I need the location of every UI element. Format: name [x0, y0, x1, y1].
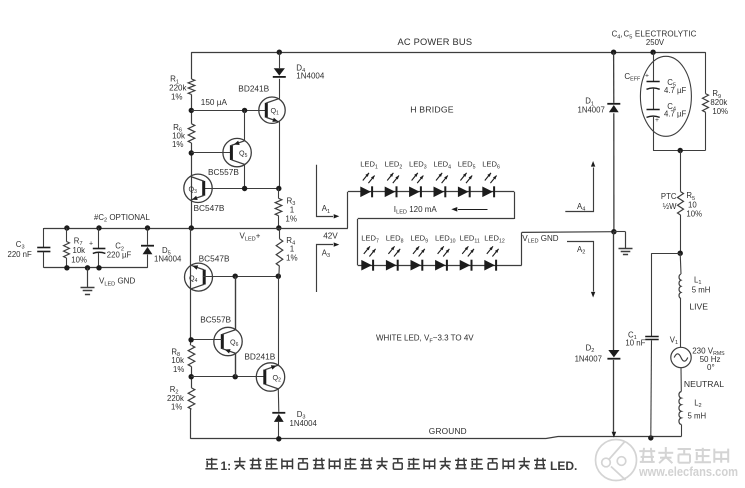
node D3/rail: [276, 436, 281, 441]
label CEFF: [624, 72, 641, 83]
LED12: [484, 246, 498, 270]
source V1 230Vrms 50Hz: [671, 347, 691, 367]
svg-text:1N4004: 1N4004: [296, 72, 325, 81]
label D5 1N4004: [154, 246, 182, 264]
label 230 VRMS 50 Hz 0deg: [692, 346, 725, 357]
label ILED 120 mA: [394, 205, 438, 216]
wire ground rail: [191, 409, 682, 439]
svg-text:ILED 120 mA: ILED 120 mA: [394, 205, 438, 216]
wire Q2 emitter vertical: [278, 276, 280, 365]
inductor L2 5mH: [679, 392, 682, 437]
label R9 820k 10%: [710, 89, 728, 116]
wire Q1 base / 150uA: [191, 110, 265, 112]
node R4/Q2 emitter: [276, 274, 281, 279]
label PTC 1/2W: [661, 192, 677, 211]
wire Q1 emitter down: [279, 122, 281, 188]
node connector/PTC: [678, 148, 683, 153]
label BD241B (Q1): [238, 84, 269, 94]
wire CEFF bottom connector: [653, 150, 705, 152]
node VLED GND rail / D column: [611, 229, 616, 234]
wire Q4 base row: [203, 276, 278, 278]
label WHITE LED note: [376, 334, 474, 345]
label V1: [670, 335, 678, 346]
capacitor C4 4.7uF: [647, 110, 660, 125]
wire bus below R8: [191, 367, 193, 388]
node stub/C2: [96, 265, 101, 270]
label VLED GND (left): [99, 277, 135, 288]
wire VLED+ rail: [44, 228, 348, 230]
label AC POWER BUS: [398, 37, 473, 47]
wire Q6 collector vertical: [235, 353, 237, 376]
svg-text:Q3: Q3: [189, 185, 198, 196]
annotation arrow A2: [567, 242, 595, 298]
wire D1 column upper: [613, 52, 615, 103]
transistor Q4 BC547B: [185, 263, 213, 291]
svg-text:½W: ½W: [663, 202, 678, 211]
label BC557B (Q6): [200, 314, 231, 324]
svg-text:1N4004: 1N4004: [154, 255, 182, 264]
label R3 1 1%: [285, 196, 297, 223]
svg-text:4.7 µF: 4.7 µF: [664, 110, 686, 119]
wire rail to right ground: [614, 231, 626, 233]
label R1 220k 1%: [169, 75, 187, 102]
svg-text:10: 10: [688, 200, 697, 209]
wire C5-C4: [653, 89, 655, 110]
label LED3: [409, 160, 427, 171]
node Q1 base wire: [189, 108, 194, 113]
svg-text:LED3: LED3: [409, 160, 427, 171]
wire LED return: [358, 219, 515, 266]
annotation arrow A4: [565, 161, 595, 213]
LED11: [460, 246, 474, 270]
watermark url www.elecfans.com: [638, 465, 738, 479]
resistor R2 220k 1%: [188, 388, 195, 409]
watermark text dianzifashaoyou: [639, 447, 728, 463]
node bus/C5: [650, 50, 655, 55]
diode D2 1N4007: [607, 350, 620, 360]
wire Q6 emitter vertical: [235, 276, 237, 330]
svg-text:1%: 1%: [171, 92, 183, 101]
svg-text:5 mH: 5 mH: [692, 285, 711, 294]
wire Q2 base row: [191, 376, 264, 378]
svg-text:+: +: [89, 241, 93, 248]
svg-text:PTC: PTC: [661, 192, 677, 201]
wire Q3 base row: [204, 188, 279, 190]
svg-text:BD241B: BD241B: [244, 351, 275, 361]
svg-text:220k: 220k: [167, 394, 184, 403]
node Q6 emitter tap: [233, 274, 238, 279]
node bus/D4: [277, 50, 282, 55]
label VLED+: [240, 232, 261, 243]
label L2 5 mH: [688, 398, 707, 420]
svg-text:150 µA: 150 µA: [201, 98, 228, 107]
svg-text:250V: 250V: [646, 38, 665, 47]
label C1 10 nF: [625, 330, 645, 347]
label D1 1N4007: [578, 97, 605, 115]
label #C2 OPTIONAL: [94, 213, 150, 224]
svg-text:A2: A2: [577, 245, 585, 256]
diode D1 1N4007: [607, 103, 620, 112]
label R6 10k 1%: [172, 123, 186, 149]
svg-text:A3: A3: [322, 248, 330, 259]
capacitor C5 4.7uF: [645, 52, 660, 89]
svg-text:Q1: Q1: [271, 106, 280, 117]
resistor R9 820k 10%: [703, 94, 709, 113]
svg-text:CEFF: CEFF: [624, 72, 641, 83]
ellipse CEFF: [640, 56, 691, 136]
wire V1 to L2: [680, 368, 682, 392]
wire LED row1: [348, 192, 515, 229]
label R5 10 10%: [686, 191, 702, 218]
label C3 220 nF: [8, 240, 33, 259]
svg-text:V1: V1: [670, 335, 678, 346]
LED9: [411, 246, 425, 270]
node Q5C/Q3B: [242, 186, 247, 191]
svg-text:4.7 µF: 4.7 µF: [664, 86, 686, 95]
label 150 uA: [201, 98, 228, 107]
capacitor C3 220nF: [37, 228, 50, 268]
svg-text:1%: 1%: [286, 253, 298, 262]
node rail/D5: [145, 225, 150, 230]
wire Q5 collector vertical: [244, 164, 246, 188]
label L1 5 mH: [692, 275, 711, 294]
label + (C2 polarity): [89, 241, 93, 248]
ground (left): [81, 268, 95, 295]
resistor R3: [275, 189, 282, 229]
label LED4: [433, 160, 451, 171]
label LED11: [460, 234, 480, 245]
label C5 4.7 uF: [664, 78, 686, 95]
label BC547B (Q4): [199, 254, 230, 264]
wire Q5 base: [191, 152, 230, 154]
svg-text:220 nF: 220 nF: [8, 250, 33, 259]
svg-text:Q2: Q2: [273, 373, 282, 384]
LED10: [435, 246, 449, 270]
node Q6C/Q2B: [233, 374, 238, 379]
LED3: [409, 173, 423, 197]
node rail/bus: [189, 225, 194, 230]
label LED5: [458, 160, 476, 171]
svg-text:1%: 1%: [171, 403, 182, 412]
capacitor C2 220uF electrolytic: [93, 228, 106, 268]
diode D4 1N4004: [273, 52, 286, 78]
label D3 1N4004: [290, 410, 318, 428]
svg-text:1:: 1:: [221, 459, 232, 473]
capacitor C1 10nF: [645, 337, 659, 438]
transistor Q3 BC547B: [184, 174, 212, 202]
node bus/Q6 base: [188, 337, 193, 342]
svg-text:LED2: LED2: [385, 160, 403, 171]
LED5: [458, 173, 472, 197]
svg-text:820k: 820k: [710, 98, 727, 107]
node Q5 base wire: [189, 150, 194, 155]
label LED8: [386, 234, 404, 245]
svg-text:LIVE: LIVE: [689, 302, 708, 312]
wire R9 column: [705, 52, 707, 150]
LED6: [482, 173, 496, 197]
label R8 10k 1%: [171, 347, 184, 374]
label LED12: [484, 234, 505, 245]
wire LED row2: [358, 232, 614, 266]
resistor R6: [188, 124, 195, 143]
node PTC bottom / branches: [678, 251, 683, 256]
svg-text:LED4: LED4: [433, 160, 451, 171]
svg-text:LED11: LED11: [460, 234, 480, 245]
label BD241B (Q2): [244, 351, 275, 361]
resistor R5 PTC: [678, 151, 684, 254]
svg-text:10%: 10%: [686, 209, 702, 218]
wire Q5 emitter vertical: [244, 110, 246, 140]
ground (right): [619, 232, 633, 255]
svg-text:BC547B: BC547B: [194, 203, 225, 213]
node stub/ground: [85, 265, 90, 270]
label LED9: [410, 234, 428, 245]
svg-text:BC557B: BC557B: [200, 314, 231, 324]
svg-text:LED1: LED1: [360, 160, 378, 171]
label BC547B (Q3): [194, 203, 225, 213]
label NEUTRAL: [684, 379, 724, 389]
svg-text:LED12: LED12: [484, 234, 505, 245]
annotation arrow A3: [317, 242, 340, 292]
svg-text:10 nF: 10 nF: [625, 338, 645, 347]
wire C1 branch: [652, 253, 681, 336]
LED8: [386, 246, 400, 270]
svg-text:VLED GND: VLED GND: [522, 234, 559, 245]
resistor R8 10k 1%: [188, 345, 195, 366]
label LIVE: [689, 302, 708, 312]
node Q1E/R3: [276, 186, 281, 191]
svg-text:10k: 10k: [171, 356, 184, 365]
svg-text:#C2 OPTIONAL: #C2 OPTIONAL: [94, 213, 150, 224]
label LED2: [385, 160, 403, 171]
svg-text:LED9: LED9: [410, 234, 428, 245]
svg-text:AC POWER BUS: AC POWER BUS: [398, 37, 473, 47]
label LED7: [361, 234, 379, 245]
svg-text:D2: D2: [586, 343, 595, 354]
resistor R4: [276, 228, 283, 276]
svg-text:H BRIDGE: H BRIDGE: [410, 104, 454, 114]
wire D2 column: [613, 232, 615, 350]
wire D1 to VLED GND rail: [613, 113, 615, 232]
label GROUND: [429, 426, 467, 436]
svg-text:10k: 10k: [73, 246, 86, 255]
watermark logo circle: [596, 440, 637, 481]
label R2 220k 1%: [167, 385, 184, 412]
svg-text:LED6: LED6: [482, 160, 500, 171]
svg-text:42V: 42V: [323, 231, 338, 240]
transistor Q2 BD241B: [256, 363, 284, 391]
svg-text:1N4007: 1N4007: [578, 106, 605, 115]
svg-text:1: 1: [290, 205, 295, 214]
svg-text:+: +: [655, 117, 659, 124]
node bus/Q2 base: [189, 374, 194, 379]
transistor Q5 BC557B: [223, 138, 251, 166]
svg-text:Q5: Q5: [239, 149, 248, 160]
node R3/rail: [276, 225, 281, 230]
svg-text:WHITE LED, VF~3.3 TO 4V: WHITE LED, VF~3.3 TO 4V: [376, 334, 474, 345]
wire Q6 base: [191, 339, 222, 341]
label C4 4.7 uF: [664, 102, 686, 119]
svg-text:Q6: Q6: [230, 338, 239, 349]
caption figure 1 (Chinese): [205, 457, 577, 473]
node bus/D1: [611, 50, 616, 55]
svg-text:L2: L2: [694, 398, 701, 409]
svg-text:BD241B: BD241B: [238, 84, 269, 94]
svg-text:1%: 1%: [172, 140, 184, 149]
wire left bus upper: [191, 52, 193, 228]
label BC557B (Q5): [208, 167, 239, 177]
wire VLED GND stub rail: [44, 267, 148, 269]
label D4 1N4004: [296, 63, 325, 80]
wire D2 to ground rail with arrow: [612, 360, 617, 438]
resistor R7 10k 10%: [64, 228, 70, 268]
transistor Q6 BC557B: [214, 327, 242, 355]
label H BRIDGE: [410, 104, 454, 114]
label LED1: [360, 160, 378, 171]
node rail/C2: [96, 225, 101, 230]
wire AC power bus: [191, 52, 705, 54]
svg-text:BC547B: BC547B: [199, 254, 230, 264]
svg-text:1N4004: 1N4004: [290, 419, 318, 428]
label C4 C5 ELECTROLYTIC 250V: [612, 30, 697, 47]
annotation arrow A1: [317, 165, 340, 219]
node Q5 emitter tap: [242, 108, 247, 113]
svg-text:220 µF: 220 µF: [107, 250, 132, 259]
svg-text:+: +: [645, 73, 649, 80]
label LED6: [482, 160, 500, 171]
diode D3 1N4004: [272, 412, 285, 439]
svg-text:10%: 10%: [712, 107, 728, 116]
wire Q2 collector: [277, 389, 280, 412]
svg-text:NEUTRAL: NEUTRAL: [684, 379, 724, 389]
label R4 1 1%: [286, 236, 298, 262]
svg-text:C4,: C4,: [612, 30, 623, 41]
label R7 10k 10%: [71, 236, 87, 264]
svg-text:5 mH: 5 mH: [688, 411, 707, 420]
diode D5 1N4004: [141, 228, 154, 268]
svg-text:www.elecfans.com: www.elecfans.com: [638, 465, 738, 479]
wire L1 to V1: [680, 299, 682, 348]
LED7: [361, 246, 375, 270]
svg-text:1%: 1%: [173, 365, 184, 374]
svg-text:GROUND: GROUND: [429, 426, 467, 436]
label VLED GND (right): [522, 234, 559, 245]
svg-text:10%: 10%: [71, 255, 87, 264]
svg-text:LED8: LED8: [386, 234, 404, 245]
label 42V: [323, 231, 338, 240]
svg-text:LED10: LED10: [435, 234, 456, 245]
inductor L1 5mH: [679, 253, 681, 298]
LED1: [360, 173, 374, 197]
wire Q1 collector: [279, 79, 281, 99]
label LED10: [435, 234, 456, 245]
node C1/rail: [648, 435, 653, 440]
label C2 220 uF: [107, 242, 132, 260]
svg-text:1: 1: [290, 245, 295, 254]
svg-text:LED5: LED5: [458, 160, 476, 171]
svg-text:LED.: LED.: [550, 459, 577, 473]
svg-text:VLED GND: VLED GND: [99, 277, 135, 288]
svg-text:0°: 0°: [707, 363, 715, 372]
transistor Q1 BD241B: [259, 97, 285, 123]
svg-text:1N4007: 1N4007: [575, 354, 602, 363]
svg-text:LED7: LED7: [361, 234, 379, 245]
label D2 1N4007: [575, 343, 602, 363]
svg-text:A1: A1: [322, 204, 330, 215]
node rail/R7: [64, 225, 69, 230]
svg-text:VLED+: VLED+: [240, 232, 261, 243]
arrow ILED direction: [451, 207, 487, 212]
node stub/R7: [64, 265, 69, 270]
svg-text:BC557B: BC557B: [208, 167, 239, 177]
resistor R1: [188, 79, 195, 95]
LED2: [385, 173, 399, 197]
wire left bus mid: [190, 228, 192, 345]
wire C4 down: [653, 117, 655, 151]
LED4: [434, 173, 448, 197]
svg-text:1%: 1%: [285, 215, 297, 224]
